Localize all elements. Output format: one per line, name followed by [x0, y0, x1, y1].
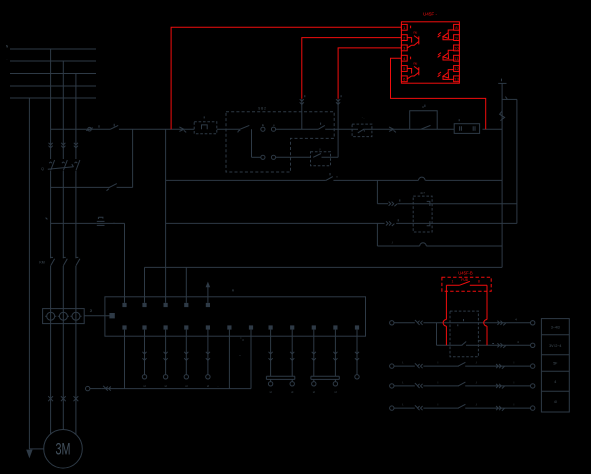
phase 3 plug chevrons — [74, 143, 78, 148]
right bus vertical — [501, 83, 503, 267]
svg-text:9: 9 — [455, 35, 458, 40]
svg-text:6: 6 — [403, 77, 406, 82]
line y223 label tick — [46, 218, 48, 220]
terminal 6 drop wire — [228, 330, 230, 389]
rung5 left terminal — [390, 406, 394, 410]
outgoing wire 4 — [206, 330, 210, 388]
plug tick labels — [305, 95, 341, 97]
KM label — [39, 261, 44, 265]
rung5 wire A — [394, 407, 415, 409]
svg-text:4: 4 — [515, 317, 517, 321]
rung4 wire B — [423, 385, 530, 387]
XT top terminal 3 — [164, 303, 168, 307]
power bus line L5 — [10, 97, 96, 99]
strip labels — [241, 336, 242, 340]
TA circle 1 — [45, 312, 56, 320]
power bus line L3 — [10, 73, 96, 75]
table divider — [541, 354, 569, 356]
svg-text:3: 3 — [403, 46, 406, 51]
label tick — [98, 125, 100, 127]
svg-text:4l: 4l — [554, 400, 557, 404]
rung3 labels — [402, 361, 514, 365]
rung4 labels — [402, 380, 514, 384]
table text 3~4l3 — [551, 326, 560, 330]
corner down to terminal 2 — [144, 267, 146, 302]
PE up arrow wire — [207, 284, 209, 303]
XT bottom terminal 9 — [290, 325, 294, 329]
PE down arrow — [26, 450, 32, 459]
IC led 1 — [438, 30, 454, 40]
svg-text:E: E — [262, 123, 264, 127]
QS switch blade pole 3 — [75, 160, 80, 170]
IC pin box 8 — [454, 24, 460, 30]
terminal 1 drop wire — [124, 330, 126, 389]
button link vertical — [251, 129, 253, 157]
svg-text:l.: l. — [402, 380, 404, 384]
lower tap line y187 — [51, 186, 133, 188]
IC opto transistor 1 — [407, 30, 419, 48]
svg-text:A: A — [232, 288, 235, 292]
rung5 labels — [402, 403, 514, 407]
IC pin box 11 — [454, 55, 460, 61]
IC led 3 — [438, 70, 454, 80]
svg-text:l.: l. — [402, 361, 404, 365]
red feed junction — [0, 0, 1, 1]
PE earth vertical wire — [28, 98, 30, 449]
vertical feeder x165 — [165, 129, 167, 303]
control line seg C — [217, 128, 240, 130]
XT top terminal 2 — [142, 303, 146, 307]
line y180 seg B — [333, 179, 418, 181]
phase wire 3 upper — [75, 74, 77, 160]
svg-text:10: 10 — [454, 46, 459, 51]
svg-text:.: . — [7, 57, 8, 61]
wiring table frame — [541, 319, 569, 412]
svg-text:Q: Q — [41, 167, 44, 171]
XT bottom terminal 1 — [122, 325, 126, 329]
rung5 wire B — [423, 407, 530, 409]
phase wire 1 middle — [50, 171, 52, 258]
svg-text:.l: .l — [475, 403, 477, 407]
rung3 connector R — [496, 364, 504, 369]
XT bottom terminal 11 — [333, 325, 337, 329]
svg-text:xl: xl — [143, 384, 146, 388]
KT coil box — [454, 124, 479, 134]
KM main contact pole 2 — [63, 257, 67, 265]
branch line y157 seg A — [252, 156, 261, 158]
KA branch vertical — [376, 180, 378, 203]
relay U45F-B label — [458, 270, 473, 275]
rung5 right terminal — [531, 406, 535, 410]
link bar B — [311, 376, 339, 379]
red wire pin4 — [391, 58, 486, 129]
motor 3M label — [56, 440, 71, 458]
outgoing wire 8 — [333, 330, 337, 394]
latch branch blade on main line — [421, 125, 431, 129]
phase wire 2 upper — [62, 61, 64, 159]
XT bottom terminal 8 — [269, 325, 273, 329]
outgoing wire 2 — [163, 330, 167, 388]
FR heater element — [97, 217, 105, 225]
phase wire 2 lower — [62, 266, 64, 430]
svg-text:nu: nu — [414, 30, 418, 34]
TA circle 3 — [70, 312, 81, 320]
rung1 drop to rung2 — [436, 323, 438, 346]
svg-text:l: l — [514, 403, 515, 407]
TA circle 2 — [58, 312, 69, 320]
svg-text:3~4l3: 3~4l3 — [551, 326, 560, 330]
phase wire 3 middle — [75, 171, 77, 258]
relay contact — [446, 281, 487, 285]
power bus line L4 — [10, 85, 96, 87]
line y223 seg D — [396, 222, 517, 224]
arrow marker on control line — [179, 127, 186, 132]
relay pin labels — [452, 278, 481, 283]
svg-text:4: 4 — [403, 56, 406, 61]
XT bottom terminal 12 — [355, 325, 359, 329]
svg-text:..: .. — [217, 383, 219, 387]
SB buttons dashed enclosure — [226, 112, 334, 172]
right bus terminal dash — [501, 79, 503, 82]
outgoing wire 3 — [184, 330, 188, 388]
svg-text:y: y — [319, 147, 321, 151]
branch line y157 seg B — [276, 156, 311, 158]
IC led 2 — [438, 50, 454, 60]
PE up arrowhead — [206, 282, 211, 288]
phase 1 plug chevrons — [49, 143, 53, 148]
FU fuse dashed box — [194, 122, 217, 134]
button contact circle 1b — [271, 127, 275, 131]
table text 4 — [554, 380, 556, 384]
svg-text:^: ^ — [239, 354, 241, 358]
table text 4l — [554, 400, 557, 404]
svg-text:1: 1 — [403, 25, 406, 30]
rung4 right terminal — [531, 384, 535, 388]
rung4 blade — [458, 382, 465, 386]
bottom labels — [217, 338, 244, 387]
line y180 seg C — [425, 179, 502, 181]
bus label ticks — [6, 45, 9, 61]
rung2 right terminal — [531, 343, 535, 347]
button actuator marks — [262, 123, 275, 127]
svg-text:o: o — [273, 123, 275, 127]
KA contact line — [377, 202, 517, 207]
rung3 blade — [458, 362, 465, 366]
button contact circle 1a — [261, 127, 265, 131]
corner down to terminal 1 — [124, 223, 126, 302]
line y267 main — [145, 266, 503, 268]
aux bus vertical — [516, 99, 518, 223]
XT bottom terminal 5 — [206, 325, 210, 329]
phase wire 1 upper — [50, 49, 52, 159]
bus breaker squiggle — [500, 97, 508, 121]
IC pin box 6 — [401, 76, 407, 82]
control line seg D — [276, 128, 318, 130]
KT dashed box — [413, 196, 432, 232]
vertical wire from plug B — [337, 99, 339, 157]
svg-text:U45F -: U45F - — [423, 12, 438, 17]
FU fuse element — [202, 116, 208, 129]
svg-text:13: 13 — [454, 77, 459, 82]
svg-text:l: l — [438, 361, 439, 365]
SB3 blade — [318, 123, 324, 130]
IC pin box 3 — [401, 45, 407, 51]
KM latch loop — [410, 111, 438, 130]
rung3 wire A — [394, 365, 415, 367]
latch labels — [422, 105, 425, 109]
rung3 wire B — [423, 365, 530, 367]
button contact circle 2b — [271, 155, 275, 159]
outgoing wire 9 — [355, 330, 359, 379]
control line seg G — [483, 128, 503, 130]
opto IC U45F-A body — [401, 22, 459, 83]
line y246 seg B — [426, 245, 502, 247]
opto IC U45F-A label — [423, 12, 438, 17]
svg-text:12: 12 — [454, 66, 459, 71]
svg-text:xl: xl — [291, 390, 294, 394]
power bus line L1 — [10, 48, 96, 50]
rung1 ticks in KM box — [458, 319, 464, 326]
branch line y157 seg C — [322, 156, 339, 158]
rung3 connector L — [415, 363, 423, 368]
KT terminal marks — [427, 201, 430, 225]
svg-text:xl: xl — [165, 384, 168, 388]
FR dots — [113, 220, 115, 224]
relay U45F-B dashed box — [442, 277, 491, 291]
phase wire 3 lower — [75, 266, 77, 434]
phase wire 1 lower — [50, 266, 52, 434]
line y223 connector — [386, 219, 398, 226]
KT coil inner marks — [460, 126, 475, 131]
KM aux label — [319, 147, 321, 151]
svg-text:l.: l. — [402, 403, 404, 407]
IC pin box 1 — [401, 24, 407, 30]
svg-text:3V l2~4: 3V l2~4 — [549, 344, 561, 348]
svg-text:rl: rl — [242, 338, 244, 342]
PE ground bottom line — [102, 388, 251, 390]
control line seg A — [51, 128, 111, 130]
rung1 wire B — [423, 322, 530, 324]
PE line connector — [103, 386, 111, 391]
IC interior ticks — [410, 26, 412, 60]
KA interlock label — [362, 116, 366, 120]
KM aux blade — [313, 154, 321, 158]
aux bus top connector — [502, 98, 517, 100]
cable mark phase 1 — [48, 396, 53, 401]
table divider — [541, 334, 569, 336]
table text 3V l2~4 — [549, 344, 561, 348]
IC pin box 10 — [454, 45, 460, 51]
control line seg B — [119, 128, 194, 130]
XT left terminal — [109, 313, 114, 318]
KM main contact pole 3 — [76, 257, 80, 265]
outgoing wire 6 — [290, 330, 294, 394]
phase 2 plug chevrons — [61, 143, 65, 148]
svg-text:5: 5 — [403, 66, 406, 71]
KM main contact pole 1 — [50, 257, 54, 265]
KA interlock dashed box — [352, 124, 372, 137]
plug chevrons A — [300, 99, 304, 104]
rung1 left terminal — [390, 321, 394, 325]
IC pin box 13 — [454, 76, 460, 82]
KM contact dashed box — [450, 311, 478, 357]
rung2 connector R — [492, 343, 506, 348]
lower tap blade — [107, 184, 117, 191]
svg-text:8: 8 — [455, 25, 458, 30]
terminal 7 corner wire — [250, 330, 252, 389]
cable mark phase 2 — [61, 396, 66, 401]
rung1 right terminal — [531, 321, 535, 325]
svg-text:xl: xl — [207, 384, 210, 388]
line y223 seg C — [166, 222, 385, 224]
XT bottom terminal 2 — [142, 325, 146, 329]
line y180 blade — [326, 173, 338, 180]
current transformer TA box — [43, 309, 85, 324]
rung4 left terminal — [390, 384, 394, 388]
line y223 seg B — [105, 222, 125, 224]
rung3 right terminal — [531, 364, 535, 368]
control line seg F — [410, 128, 455, 130]
XT top terminal 5 — [206, 303, 210, 307]
svg-text:.l: .l — [475, 361, 477, 365]
SB2 label above box — [258, 107, 266, 111]
IC pin box 12 — [454, 66, 460, 72]
line y223 seg A — [51, 222, 97, 224]
table divider — [541, 390, 569, 392]
KA tick — [399, 199, 401, 201]
line y246 hop — [420, 243, 427, 246]
terminal strip box XT — [105, 297, 366, 336]
rung5 connector L — [415, 405, 423, 410]
svg-text:S B 2: S B 2 — [258, 107, 266, 111]
KT box top label — [458, 119, 460, 121]
corner down to terminal 4 — [185, 267, 187, 302]
red drop wire 2 — [484, 285, 487, 345]
svg-text:.l: .l — [391, 240, 393, 244]
motor earth terminal — [86, 386, 102, 390]
XT bottom terminal 3 — [164, 325, 168, 329]
svg-text:FU8: FU8 — [461, 278, 468, 282]
plug chevrons B — [336, 99, 340, 104]
svg-text:KM: KM — [39, 261, 44, 265]
rung4 connector L — [415, 383, 423, 388]
XT bottom terminal 6 — [227, 325, 231, 329]
KT label — [420, 191, 425, 195]
outgoing wire 5 — [268, 330, 272, 394]
svg-text:8: 8 — [478, 280, 480, 284]
switch blade SA — [111, 124, 119, 129]
rung2 label — [517, 340, 519, 344]
control line seg E — [325, 128, 410, 130]
QS switch blade pole 2 — [62, 160, 67, 170]
latch loop tick — [424, 105, 426, 107]
line y180 seg A — [166, 179, 326, 181]
rung5 blade — [458, 404, 465, 408]
junction vertical to lower tap — [132, 129, 134, 187]
svg-text:xl: xl — [313, 390, 316, 394]
line y246 seg A — [377, 245, 419, 247]
rung4 connector R — [496, 384, 504, 389]
QS switch blade pole 1 — [49, 160, 54, 170]
svg-text:-. .: -. . — [362, 116, 366, 120]
outgoing wire 1 — [142, 330, 146, 388]
svg-text:2l: 2l — [90, 309, 93, 313]
right bus terminal bar — [498, 82, 506, 84]
outgoing wire 7 — [312, 330, 316, 394]
fuse connector symbol — [86, 127, 93, 131]
svg-text:l: l — [514, 361, 515, 365]
svg-text:nu: nu — [414, 61, 418, 65]
svg-text:4: 4 — [554, 380, 556, 384]
svg-text:1: 1 — [452, 280, 454, 284]
svg-text:xl: xl — [270, 390, 273, 394]
svg-text:U45F-B: U45F-B — [458, 270, 473, 275]
arrow marker 2 on control line — [389, 127, 396, 132]
svg-text:2: 2 — [403, 35, 406, 40]
svg-text:x: x — [336, 174, 338, 178]
IC pin box 4 — [401, 55, 407, 61]
svg-text:4l.7: 4l.7 — [420, 191, 425, 195]
vertical wire from plug A — [301, 99, 303, 129]
IC pin box 2 — [401, 35, 407, 41]
PE branch wire to motor — [29, 448, 44, 450]
power bus line L2 — [10, 60, 96, 62]
red wire pin1 — [171, 27, 401, 129]
XT bottom terminal 7 — [249, 325, 253, 329]
KM aux dashed box — [311, 152, 331, 166]
svg-text:l.l: l.l — [422, 105, 425, 109]
QS label — [41, 167, 44, 171]
button contact circle 2a — [261, 155, 265, 159]
red wire pin2 — [302, 38, 402, 99]
XT top terminal 1 — [122, 303, 126, 307]
SB1 stop blade — [238, 125, 250, 132]
rung2 wire — [437, 344, 531, 346]
phase wire 2 middle — [62, 171, 64, 258]
svg-text:4: 4 — [517, 340, 519, 344]
rung4 wire A — [394, 385, 415, 387]
rung1 connector R — [497, 321, 505, 326]
svg-text:11: 11 — [454, 56, 459, 61]
svg-text:xl: xl — [334, 390, 337, 394]
red drop wire 1 — [443, 285, 446, 345]
line y246 label — [391, 240, 393, 244]
svg-text:N: N — [6, 45, 9, 49]
rung5 connector R — [496, 406, 504, 411]
rung1 wire A — [394, 322, 415, 324]
red wire pin3 — [338, 48, 401, 99]
svg-text:3M: 3M — [56, 440, 71, 458]
table divider — [541, 370, 569, 372]
svg-text:5F: 5F — [553, 362, 558, 366]
TA wire label — [90, 309, 93, 313]
svg-text:l: l — [438, 403, 439, 407]
KT branch vertical — [376, 223, 378, 246]
QS switch linkage bar — [48, 164, 74, 169]
svg-text:.l: .l — [475, 380, 477, 384]
XT top terminal 4 — [184, 303, 188, 307]
svg-text:l: l — [438, 380, 439, 384]
table text 5F — [553, 362, 558, 366]
TA secondary wire — [84, 315, 110, 317]
KA interlock blade — [358, 129, 365, 133]
rung1 label — [515, 317, 517, 321]
IC pin box 9 — [454, 35, 460, 41]
rung1 connector L — [415, 320, 423, 325]
svg-text:l: l — [514, 380, 515, 384]
XT bottom terminal 10 — [312, 325, 316, 329]
svg-text:xl: xl — [185, 384, 188, 388]
